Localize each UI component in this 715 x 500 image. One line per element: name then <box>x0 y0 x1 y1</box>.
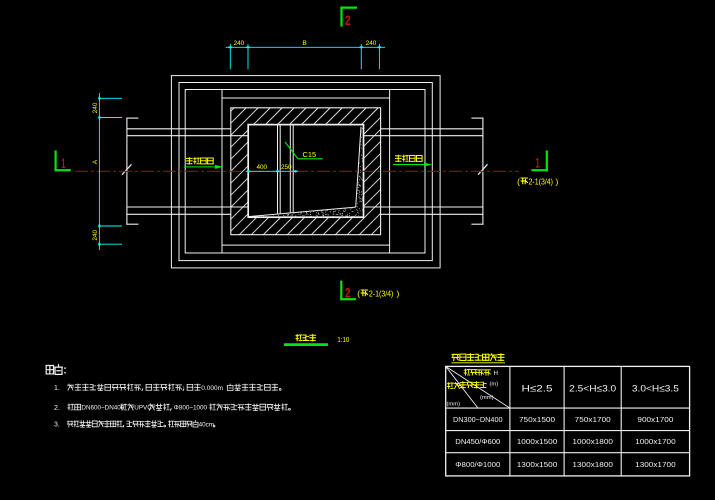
svg-text:H≤2.5: H≤2.5 <box>522 383 553 394</box>
section marker 2 bottom <box>340 281 342 301</box>
svg-text:2.5<H≤3.0: 2.5<H≤3.0 <box>569 383 616 394</box>
svg-text:): ) <box>397 289 400 299</box>
flow direction label left <box>186 158 192 165</box>
svg-text:H: H <box>494 370 498 377</box>
drawing title underline <box>284 343 328 346</box>
well wall outer face <box>231 108 381 235</box>
svg-text:240: 240 <box>234 40 245 47</box>
right pipe walls <box>381 128 483 130</box>
svg-text:Φ800~1000: Φ800~1000 <box>174 405 208 412</box>
svg-text:Φ800/Φ1000: Φ800/Φ1000 <box>455 460 500 469</box>
notes heading <box>46 365 53 373</box>
svg-text:400: 400 <box>256 164 267 171</box>
excavation outline rect1 <box>171 76 440 268</box>
svg-text:2-1(3/4): 2-1(3/4) <box>529 178 554 187</box>
svg-text:A: A <box>92 159 99 164</box>
svg-text:2.: 2. <box>54 405 60 412</box>
svg-text:0.000m: 0.000m <box>201 385 223 392</box>
svg-text:3.: 3. <box>54 422 60 429</box>
left pipe walls <box>127 128 231 130</box>
bedding rect2 <box>179 83 432 261</box>
svg-text:900x1700: 900x1700 <box>637 415 673 424</box>
svg-text:(mm): (mm) <box>447 402 461 408</box>
table title <box>452 354 459 360</box>
top dimension line 240/B/240 <box>226 46 385 48</box>
svg-text:2: 2 <box>345 285 351 301</box>
chamber partition wall 1 <box>277 125 279 215</box>
chamber inner face <box>248 125 363 218</box>
section marker 1 right <box>546 151 548 172</box>
svg-text:1000x1800: 1000x1800 <box>572 437 613 446</box>
red centerline <box>75 170 519 172</box>
svg-text:250: 250 <box>281 164 292 171</box>
header cell labels <box>464 369 470 375</box>
cyan mini dim 400/250 on centerline <box>248 170 295 172</box>
section marker 1 left <box>54 151 56 172</box>
sloped back wall edge <box>356 127 361 207</box>
svg-text:(: ( <box>357 289 360 299</box>
svg-text:240: 240 <box>366 40 377 47</box>
foundation rect3 <box>185 90 425 254</box>
flow arrow left <box>184 166 217 168</box>
svg-text:1: 1 <box>61 155 65 171</box>
svg-text:): ) <box>556 177 559 187</box>
svg-text:1300x1800: 1300x1800 <box>572 460 613 469</box>
svg-text:DN450/Φ600: DN450/Φ600 <box>455 437 500 446</box>
svg-text:UPVC: UPVC <box>134 405 152 412</box>
benching slope edge <box>249 207 356 217</box>
svg-text:1:10: 1:10 <box>337 335 349 344</box>
svg-text:1300x1700: 1300x1700 <box>635 460 676 469</box>
svg-text:2-1(3/4): 2-1(3/4) <box>369 290 394 299</box>
svg-text:(m): (m) <box>490 382 499 388</box>
svg-text:(mm): (mm) <box>480 395 494 401</box>
table grid <box>446 366 690 476</box>
svg-text:750x1700: 750x1700 <box>575 415 611 424</box>
left pipe bell collar <box>126 118 128 225</box>
concrete stipple fill <box>263 128 363 217</box>
svg-text:1300x1500: 1300x1500 <box>517 460 558 469</box>
svg-text:(: ( <box>517 177 520 187</box>
svg-text:1: 1 <box>536 155 540 171</box>
right pipe bell collar <box>482 118 484 225</box>
svg-text:2: 2 <box>345 12 351 28</box>
svg-text:C15: C15 <box>303 150 317 159</box>
flow arrow right <box>393 164 426 166</box>
left pipe break slash <box>122 164 132 174</box>
svg-text:240: 240 <box>92 102 99 113</box>
svg-text:40cm: 40cm <box>199 421 214 428</box>
base slab rect3.5 <box>222 98 390 245</box>
chamber partition wall 2 <box>289 125 291 213</box>
flow direction label right <box>395 155 401 162</box>
svg-text:DN600~DN400: DN600~DN400 <box>81 405 124 412</box>
svg-text:B: B <box>302 40 307 47</box>
svg-text:1.: 1. <box>54 385 60 392</box>
left dimension line 240/A/240 <box>98 93 100 250</box>
svg-text:DN300~DN400: DN300~DN400 <box>453 415 503 424</box>
section marker 2 top <box>340 7 342 27</box>
header diagonal lines <box>446 366 510 408</box>
svg-text:240: 240 <box>92 230 99 241</box>
right pipe break slash <box>478 164 488 174</box>
svg-text:1000x1500: 1000x1500 <box>517 437 558 446</box>
svg-text:750x1500: 750x1500 <box>519 415 555 424</box>
svg-text:1000x1700: 1000x1700 <box>635 437 676 446</box>
drawing title plan view <box>296 334 302 340</box>
C15 leader <box>285 142 323 159</box>
svg-text:3.0<H≤3.5: 3.0<H≤3.5 <box>632 383 679 394</box>
